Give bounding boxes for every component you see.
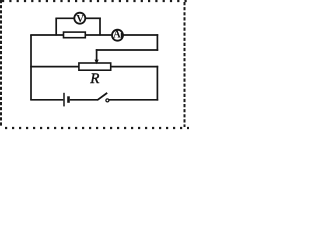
wire: bottom left segment to battery (30, 99, 63, 101)
svg-text:A: A (113, 29, 121, 40)
wire: top main, left segment to resistor (30, 34, 63, 36)
wire: voltmeter loop top-left horizontal (55, 17, 74, 19)
wire: slider stem vertical (96, 49, 98, 61)
battery B1: short thick plate (67, 96, 70, 103)
switch S1: blade (open) (97, 93, 107, 100)
decorative dashed frame (not a circuit element) (1, 0, 189, 128)
wire: battery to switch (70, 99, 98, 101)
wire: rheostat branch right horizontal (111, 66, 159, 68)
ammeter A1 (112, 30, 123, 41)
switch S1: right contact circle (106, 99, 109, 102)
wire: rheostat branch left horizontal (30, 66, 79, 68)
voltmeter V1 (74, 13, 85, 24)
wire: voltmeter loop left vertical (55, 18, 57, 35)
wire: ammeter to top-right corner (123, 34, 158, 36)
wire: switch to bottom-right corner (109, 99, 158, 101)
wire: right upper vertical down to slider feed (156, 34, 158, 51)
rheostat slider arrow (95, 60, 99, 65)
wire: slider feed horizontal (96, 49, 158, 51)
wire: left vertical (node battery+ to top branch) (30, 35, 32, 100)
resistor (unlabeled box) (64, 32, 86, 38)
ammeter interior tick mark (120, 33, 122, 38)
svg-text:V: V (76, 14, 84, 25)
battery B1: long plate (63, 93, 65, 107)
wire: voltmeter loop right vertical (99, 18, 101, 36)
rheostat R (resistance box) (79, 63, 111, 70)
wire: right lower vertical (156, 66, 158, 101)
wire: voltmeter loop top-right horizontal (85, 17, 101, 19)
wire: resistor to ammeter (85, 34, 112, 36)
svg-text:R: R (89, 71, 99, 87)
